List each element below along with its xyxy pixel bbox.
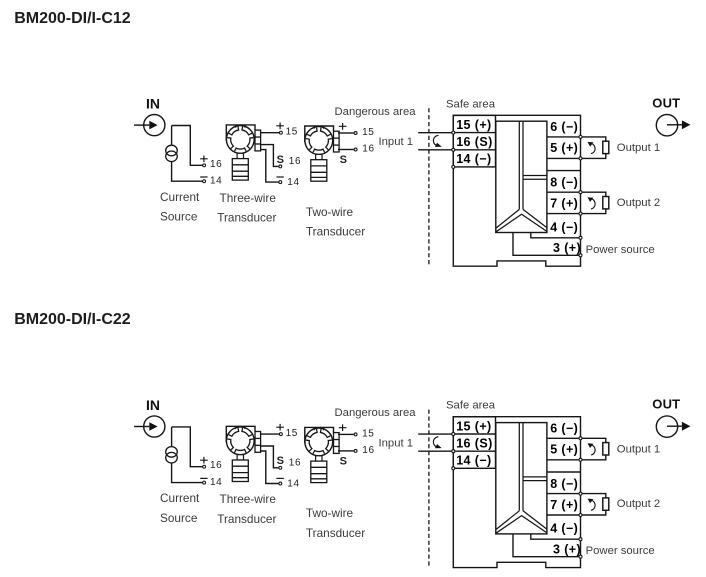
terminal 15 (three-wire) C12: [279, 131, 282, 134]
svg-text:IN: IN: [146, 397, 160, 413]
svg-text:6 (−): 6 (−): [550, 421, 578, 435]
wire three-wire pin2 to terminal 16 C22: [261, 446, 279, 468]
junction dot terminal 15 C12: [452, 131, 455, 134]
wire current-source loop C22: [172, 427, 203, 483]
junction dot terminal 4 C22: [579, 538, 582, 541]
three-wire transducer C22 neck: [237, 455, 243, 460]
svg-text:16: 16: [362, 143, 374, 154]
wire two-wire pin1 to terminal 15 C22: [338, 433, 354, 435]
svg-text:S: S: [277, 455, 284, 467]
minus mark at current-source terminal 14 C12: [200, 176, 207, 178]
junction dot terminal 6 C22: [579, 437, 582, 440]
junction dot terminal 15 C22: [452, 433, 455, 436]
svg-text:OUT: OUT: [652, 95, 680, 110]
load resistor RL2 C12: [603, 197, 609, 209]
input terminal boxes 15/16/14 C22: [453, 417, 495, 469]
wire power positive terminal 3 C22: [513, 534, 579, 557]
terminal 14 (three-wire) C22: [279, 482, 282, 485]
dashed area separator C22: [428, 410, 430, 568]
terminal 16 (two-wire) C22: [354, 449, 357, 452]
wire output 2 load loop C12: [582, 192, 606, 213]
minus mark at three-wire terminal 14 C12: [276, 176, 283, 178]
wire three-wire pin1 to terminal 15 C22: [261, 433, 280, 435]
wire output 2 load loop C22: [582, 494, 606, 515]
plus mark at current-source terminal 16 C12: [200, 156, 208, 163]
svg-text:15: 15: [362, 428, 374, 439]
plus mark two-wire C22: [339, 424, 347, 431]
junction dot terminal 5 C22: [579, 458, 582, 461]
junction dot terminal 7 C22: [579, 514, 582, 517]
wire output 1 load loop C22: [582, 438, 606, 460]
svg-text:3 (+): 3 (+): [553, 241, 581, 255]
plus mark at current-source terminal 16 C22: [200, 457, 208, 464]
svg-text:6 (−): 6 (−): [550, 120, 578, 134]
wire two-wire pin1 to terminal 15 C12: [338, 132, 354, 134]
wire three-wire pin3 to terminal 14 C12: [261, 150, 279, 183]
junction dot terminal 5 C12: [579, 157, 582, 160]
svg-text:Power source: Power source: [586, 545, 655, 557]
svg-text:14 (−): 14 (−): [456, 454, 491, 468]
wire output 1 load loop C12: [582, 137, 606, 159]
svg-text:15 (+): 15 (+): [456, 118, 491, 132]
two-wire transducer C12 head bolt ring pattern: [306, 128, 332, 153]
svg-text:3 (+): 3 (+): [553, 542, 581, 556]
junction dot terminal 14 C22: [452, 467, 455, 470]
svg-text:Output 2: Output 2: [617, 498, 660, 510]
load resistor RL1 C22: [603, 443, 609, 455]
svg-text:Input 1: Input 1: [379, 438, 414, 450]
svg-text:Safe area: Safe area: [446, 400, 496, 412]
junction dot terminal 14 C12: [452, 165, 455, 168]
svg-text:Dangerous area: Dangerous area: [335, 407, 417, 419]
svg-text:Current: Current: [160, 491, 200, 505]
two-wire transducer C22 terminal block: [334, 433, 340, 454]
terminal 16 (current source) C22: [203, 465, 206, 468]
svg-text:16: 16: [289, 156, 301, 167]
terminal 16 (current source) C12: [203, 164, 206, 167]
svg-text:Two-wire: Two-wire: [306, 205, 354, 219]
wire power negative terminal 4 C22: [531, 534, 579, 539]
input loop hook arrow C22: [433, 437, 441, 449]
svg-text:8 (−): 8 (−): [550, 175, 578, 189]
three-wire transducer C22 finned body: [232, 460, 248, 482]
svg-text:Dangerous area: Dangerous area: [335, 106, 417, 118]
svg-text:14: 14: [210, 477, 222, 488]
output 2 loop hook arrow C22: [588, 499, 596, 511]
svg-text:Two-wire: Two-wire: [306, 506, 354, 520]
terminal 16 (three-wire) C12: [279, 165, 282, 168]
svg-text:14: 14: [210, 176, 222, 187]
two-wire transducer C12 finned body: [311, 160, 327, 182]
junction dot terminal 16 C22: [452, 450, 455, 453]
input loop hook arrow C12: [433, 135, 441, 147]
wire current-source loop C12: [172, 126, 203, 182]
output terminal row lines C12: [547, 137, 581, 214]
svg-text:Power source: Power source: [586, 244, 655, 256]
two-wire transducer C12 head circle: [305, 127, 333, 155]
junction dot terminal 3 C22: [579, 555, 582, 558]
three-wire transducer C22 housing square: [226, 426, 255, 442]
terminal 16 (three-wire) C22: [279, 466, 282, 469]
svg-text:16 (S): 16 (S): [456, 135, 492, 149]
svg-text:Input 1: Input 1: [379, 136, 414, 148]
svg-text:15: 15: [362, 127, 374, 138]
current source symbol C22: [166, 447, 178, 463]
svg-text:14: 14: [287, 177, 299, 188]
svg-text:Three-wire: Three-wire: [220, 191, 277, 205]
terminal 14 (current source) C22: [203, 481, 206, 484]
isolator module outline C12: [453, 115, 580, 266]
three-wire transducer C12 head bolt ring pattern: [227, 126, 253, 151]
minus mark at current-source terminal 14 C22: [200, 477, 207, 479]
svg-text:Output 1: Output 1: [617, 142, 660, 154]
three-wire transducer C12 finned body: [232, 159, 248, 181]
svg-text:Source: Source: [160, 511, 198, 525]
isolator module outline C22: [453, 417, 580, 568]
isolation barrier double divider C12: [519, 121, 523, 209]
isolation barrier block C22: [496, 423, 547, 534]
two-wire transducer C22 finned body: [311, 461, 327, 483]
IN signal-source circle C12: [144, 115, 165, 136]
load resistor RL1 C12: [603, 141, 609, 153]
svg-text:BM200-DI/I-C12: BM200-DI/I-C12: [14, 10, 131, 27]
OUT signal circle C12: [656, 115, 677, 136]
plus mark at three-wire terminal 15 C12: [276, 123, 284, 130]
svg-text:Three-wire: Three-wire: [220, 492, 277, 506]
output terminal row lines C22: [547, 438, 581, 515]
svg-text:5 (+): 5 (+): [550, 141, 578, 155]
terminal 16 (two-wire) C12: [354, 148, 357, 151]
minus mark at three-wire terminal 14 C22: [276, 477, 283, 479]
OUT arrow C12: [667, 124, 682, 126]
svg-text:Safe area: Safe area: [446, 98, 496, 110]
two-wire transducer C22 housing square: [305, 427, 334, 443]
three-wire transducer C12 neck: [237, 153, 243, 158]
IN signal-source circle C22: [144, 416, 165, 437]
load resistor RL2 C22: [603, 498, 609, 510]
svg-text:Transducer: Transducer: [217, 512, 276, 526]
svg-text:Transducer: Transducer: [306, 526, 365, 540]
junction dot terminal 6 C12: [579, 135, 582, 138]
input terminal boxes 15/16/14 C12: [453, 115, 495, 166]
junction dot terminal 7 C12: [579, 212, 582, 215]
svg-text:7 (+): 7 (+): [550, 498, 578, 512]
svg-text:4 (−): 4 (−): [550, 522, 578, 536]
two-wire transducer C22 neck: [316, 456, 322, 461]
isolation barrier block C12: [496, 121, 547, 232]
svg-text:16: 16: [289, 458, 301, 469]
wire two-wire pin2 to terminal 16 C22: [338, 450, 354, 452]
plus mark two-wire C12: [339, 123, 347, 130]
power distribution chevron C12: [496, 209, 547, 231]
isolation barrier double divider C22: [519, 423, 523, 511]
three-wire transducer C22 head bolt ring pattern: [227, 428, 253, 453]
current source symbol C12: [166, 145, 178, 161]
svg-text:Transducer: Transducer: [306, 225, 365, 239]
wire input + into terminal 15 C12: [418, 132, 452, 134]
wire two-wire pin2 to terminal 16 C12: [338, 149, 354, 151]
three-wire transducer C22 head circle: [226, 427, 254, 455]
svg-text:14 (−): 14 (−): [456, 152, 491, 166]
svg-text:S: S: [340, 154, 347, 166]
svg-text:15 (+): 15 (+): [456, 419, 491, 433]
svg-text:S: S: [340, 455, 347, 467]
output channel divider C22: [523, 477, 547, 481]
wire power positive terminal 3 C12: [513, 233, 579, 256]
svg-text:16: 16: [210, 159, 222, 170]
two-wire transducer C12 neck: [316, 154, 322, 159]
svg-text:5 (+): 5 (+): [550, 442, 578, 456]
svg-text:IN: IN: [146, 96, 160, 112]
three-wire transducer C22 terminal block: [255, 432, 261, 453]
IN arrow C12: [134, 124, 149, 126]
svg-text:S: S: [277, 154, 284, 166]
svg-text:8 (−): 8 (−): [550, 477, 578, 491]
junction dot terminal 8 C12: [579, 191, 582, 194]
junction dot terminal 3 C12: [579, 254, 582, 257]
OUT arrow C22: [667, 425, 682, 427]
terminal 14 (current source) C12: [203, 180, 206, 183]
svg-text:16: 16: [210, 460, 222, 471]
svg-text:15: 15: [286, 428, 298, 439]
output 1 loop hook arrow C22: [588, 443, 596, 455]
three-wire transducer C12 housing square: [226, 125, 255, 141]
svg-text:BM200-DI/I-C22: BM200-DI/I-C22: [14, 311, 131, 328]
terminal 15 (two-wire) C22: [354, 433, 357, 436]
plus mark at three-wire terminal 15 C22: [276, 424, 284, 431]
IN arrow C22: [134, 426, 149, 428]
two-wire transducer C12 terminal block: [334, 131, 340, 152]
svg-text:Current: Current: [160, 190, 200, 204]
svg-text:16 (S): 16 (S): [456, 437, 492, 451]
wire three-wire pin2 to terminal 16 C12: [261, 145, 279, 167]
three-wire transducer C12 head circle: [226, 125, 254, 153]
svg-text:15: 15: [286, 127, 298, 138]
output 1 loop hook arrow C12: [588, 142, 596, 154]
wire three-wire pin3 to terminal 14 C22: [261, 451, 279, 484]
junction dot terminal 8 C22: [579, 492, 582, 495]
svg-text:Source: Source: [160, 209, 198, 223]
dashed area separator C12: [428, 108, 430, 266]
svg-text:Output 1: Output 1: [617, 444, 660, 456]
terminal 14 (three-wire) C12: [279, 181, 282, 184]
svg-text:Transducer: Transducer: [217, 210, 276, 224]
wire three-wire pin1 to terminal 15 C12: [261, 132, 280, 134]
junction dot terminal 4 C12: [579, 236, 582, 239]
power distribution chevron C22: [496, 511, 547, 533]
wire power negative terminal 4 C12: [531, 233, 579, 238]
junction dot terminal 16 C12: [452, 148, 455, 151]
svg-text:16: 16: [362, 445, 374, 456]
output 2 loop hook arrow C12: [588, 197, 596, 209]
terminal 15 (two-wire) C12: [354, 132, 357, 135]
svg-text:Output 2: Output 2: [617, 197, 660, 209]
svg-text:14: 14: [287, 478, 299, 489]
svg-text:OUT: OUT: [652, 397, 680, 412]
two-wire transducer C12 housing square: [305, 126, 334, 142]
svg-text:4 (−): 4 (−): [550, 220, 578, 234]
three-wire transducer C12 terminal block: [255, 130, 261, 151]
OUT signal circle C22: [656, 416, 677, 437]
two-wire transducer C22 head bolt ring pattern: [306, 429, 332, 454]
two-wire transducer C22 head circle: [305, 428, 333, 456]
wire input S into terminal 16 C12: [418, 149, 452, 151]
wire input + into terminal 15 C22: [418, 433, 452, 435]
wire input S into terminal 16 C22: [418, 450, 452, 452]
svg-text:7 (+): 7 (+): [550, 197, 578, 211]
terminal 15 (three-wire) C22: [279, 433, 282, 436]
output channel divider C12: [523, 176, 547, 180]
